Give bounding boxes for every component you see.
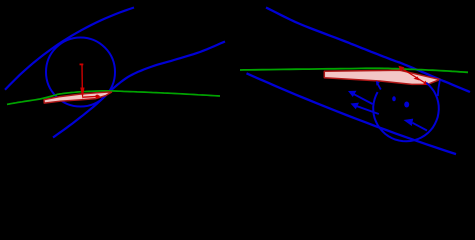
right outer arrow 1 head: [348, 91, 357, 97]
right lower tool path line: [247, 73, 457, 154]
right circle left dot: [392, 96, 396, 101]
right arrow inside circle head: [404, 119, 414, 126]
left upper tooth-path arc: [5, 8, 134, 90]
left lower tooth-path arc: [53, 42, 225, 138]
left workpiece surface green: [7, 91, 220, 105]
right tool flank line: [438, 80, 440, 97]
right outer arrow 2 head: [351, 103, 360, 110]
left red vertical arrow shaft: [81, 65, 83, 88]
right chip wedge pink: [324, 70, 440, 84]
left red feed tick: [80, 64, 84, 66]
left chip pink: [44, 92, 112, 103]
right outer arrow 1 shaft: [352, 93, 373, 104]
left red vertical arrowhead: [80, 88, 84, 100]
right red rake arrow line: [401, 68, 426, 84]
left red dot: [95, 95, 99, 99]
left cutter circle: [46, 38, 115, 107]
right upper tool path line: [266, 8, 470, 93]
right workpiece surface green: [240, 68, 468, 72]
right circle right dot: [404, 102, 409, 108]
right red arrowhead tip: [423, 81, 429, 86]
right outer arrow 3 (small, at wedge bottom): [377, 83, 381, 89]
right cutter circle arc with top gap: [373, 83, 439, 142]
right red arrowhead upper-left: [399, 66, 405, 71]
right arrow inside circle shaft: [413, 123, 428, 131]
right outer arrow 2 shaft: [355, 105, 379, 114]
right red arrowhead mid: [414, 77, 420, 81]
left red horizontal line: [83, 95, 100, 98]
